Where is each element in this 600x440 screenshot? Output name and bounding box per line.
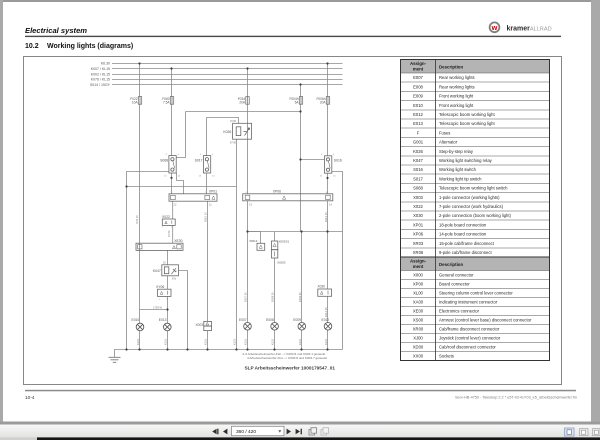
junction XY06 out / link [166, 308, 168, 310]
wire S017 to XP01 [206, 173, 208, 194]
wire S068 aux pin [177, 173, 184, 194]
svg-text:87 85: 87 85 [230, 142, 237, 145]
svg-text:7.5A: 7.5A [163, 101, 170, 105]
svg-text:XP06: XP06 [273, 189, 281, 193]
svg-text:1759 W: 1759 W [153, 305, 162, 309]
svg-text:XJ00: XJ00 [413, 336, 423, 341]
connector X030 [318, 289, 332, 296]
junction distribution / E007 feed [246, 230, 248, 232]
svg-text:E009: E009 [293, 318, 301, 322]
junction fuse F004h / bus5 [299, 83, 301, 85]
svg-text:15 86: 15 86 [230, 120, 237, 123]
svg-text:X000: X000 [413, 273, 423, 278]
svg-text:K6.30: K6.30 [101, 62, 110, 66]
wire bus line 3 K002/KL15 [112, 74, 343, 76]
junction F004h out / loop wire [299, 110, 301, 112]
svg-text:Electronics connector: Electronics connector [439, 309, 480, 314]
svg-text:E012: E012 [413, 112, 423, 117]
lamp E010 [136, 323, 144, 331]
svg-text:KL31: KL31 [244, 338, 248, 345]
junction fuse F022 / bus1 [138, 62, 140, 64]
wire S068 to XP01 [171, 173, 173, 194]
junction dot group [125, 62, 328, 350]
connector X0033/1 upper [272, 241, 278, 258]
svg-text:S016: S016 [413, 167, 423, 172]
toolbar last-page button [296, 429, 300, 435]
wire S016 to XP06 [327, 173, 329, 194]
svg-text:XD00: XD00 [413, 345, 424, 350]
junction ground bus / left return [125, 348, 127, 350]
relay K047 [162, 265, 179, 276]
toolbar snapshot icon [309, 428, 329, 435]
svg-text:Cab/frame disconnect connector: Cab/frame disconnect connector [439, 327, 500, 332]
svg-text:XE00: XE00 [413, 309, 424, 314]
svg-text:20A: 20A [239, 101, 246, 105]
svg-text:XP01: XP01 [209, 190, 217, 194]
svg-text:Working lights (diagrams): Working lights (diagrams) [47, 43, 133, 50]
junction ground bus / E007 [246, 348, 248, 350]
svg-text:15 54: 15 54 [167, 230, 171, 237]
toolbar first-page button [212, 429, 302, 435]
svg-text:S017: S017 [413, 176, 423, 181]
svg-text:G001: G001 [413, 140, 424, 145]
fuse F004h [299, 97, 302, 105]
wire F060 drop to S068 [171, 69, 173, 156]
svg-text:E013: E013 [159, 318, 167, 322]
switch S016 [325, 156, 332, 173]
svg-text:Rear working lights: Rear working lights [439, 85, 475, 90]
svg-text:E012 15: E012 15 [324, 212, 328, 222]
svg-text:Sockets: Sockets [439, 354, 454, 359]
svg-text:S068: S068 [160, 158, 168, 162]
wire bus line 4 K076/KL15 [112, 79, 343, 81]
wire relay loop upper [176, 112, 300, 158]
svg-text:10-4: 10-4 [25, 395, 35, 401]
svg-text:Steering column control lever: Steering column control lever connector [439, 291, 513, 296]
wire label KL31 E010 [135, 203, 332, 346]
svg-text:Description: Description [439, 262, 463, 267]
junction S016 aux feed [299, 158, 301, 160]
svg-text:E010: E010 [132, 318, 140, 322]
svg-text:K026: K026 [223, 130, 231, 134]
svg-text:KL31: KL31 [271, 338, 275, 345]
svg-text:S017: S017 [195, 158, 203, 162]
wire S016 aux feed [301, 159, 325, 161]
wire left return S068 [127, 172, 170, 350]
svg-text:10A: 10A [132, 101, 139, 105]
connector strip XP01 [169, 194, 217, 201]
svg-text:15-pole cab/frame disconnect: 15-pole cab/frame disconnect [439, 241, 495, 246]
footer rule [25, 390, 576, 392]
wire branch to X00SV boxes [274, 232, 276, 350]
svg-text:S014 / 15GY: S014 / 15GY [90, 83, 111, 87]
svg-text:XE30: XE30 [174, 239, 182, 243]
svg-text:K047: K047 [153, 269, 161, 273]
svg-text:KL31: KL31 [136, 338, 140, 345]
toolbar next button [287, 429, 291, 435]
junction distribution / E009 feed [300, 230, 302, 232]
fuse F034 [246, 97, 249, 105]
board XE30 [136, 243, 183, 250]
svg-text:X0013: X0013 [249, 239, 258, 243]
svg-text:K026: K026 [413, 149, 423, 154]
svg-text:20A: 20A [320, 101, 327, 105]
junction below S068 [170, 177, 172, 179]
svg-text:Telescopic boom working light: Telescopic boom working light [439, 121, 495, 126]
svg-text:K76 15: K76 15 [135, 215, 139, 224]
svg-text:Telescopic boom working light: Telescopic boom working light [439, 112, 495, 117]
lamp E013 [164, 323, 172, 331]
junction left return / row 186 [125, 185, 127, 187]
svg-text:Serv-HB-4750 - Teleskop 2.2 *: Serv-HB-4750 - Teleskop 2.2 * e5T-02+EY0… [455, 396, 577, 400]
svg-text:Rear working lights: Rear working lights [439, 75, 475, 80]
svg-text:w: w [491, 23, 498, 32]
bus label K6.30 [90, 62, 111, 87]
svg-text:14-pole board connection: 14-pole board connection [439, 232, 487, 237]
wire F022 drop [139, 64, 141, 324]
viewer bottom chrome [0, 422, 600, 425]
wire branch to X0013 [248, 232, 261, 244]
wire XE30 to K047 [167, 250, 169, 264]
svg-text:K007 / KL15: K007 / KL15 [91, 67, 110, 71]
svg-text:F: F [417, 130, 420, 135]
svg-text:XP00: XP00 [413, 282, 424, 287]
svg-text:Front working light: Front working light [439, 103, 474, 108]
svg-text:XX00: XX00 [413, 354, 424, 359]
svg-text:E007 30: E007 30 [244, 292, 248, 302]
lamp E007 [244, 323, 252, 331]
connector XY06 [158, 289, 172, 296]
svg-text:KL31: KL31 [232, 338, 236, 345]
svg-text:7-pole connector (work hydraul: 7-pole connector (work hydraulics) [439, 204, 504, 209]
svg-text:Alternator: Alternator [439, 140, 458, 145]
svg-text:X030: X030 [413, 213, 423, 218]
lamp E008 [271, 323, 279, 331]
view mode button 2 [580, 429, 589, 436]
junction below S016 [326, 177, 328, 179]
svg-text:E008: E008 [413, 85, 423, 90]
wire bus line 5 S014/15GY [112, 84, 343, 86]
svg-text:XP06: XP06 [413, 232, 424, 237]
lamp E012 [324, 323, 332, 331]
wire lamp E007 feed [247, 201, 249, 350]
svg-text:E010 12: E010 12 [203, 212, 207, 222]
switch S068 [169, 156, 176, 173]
wire lamp E009 feed [301, 232, 303, 350]
wire ground bus [115, 350, 343, 358]
svg-text:Step-by-step relay: Step-by-step relay [439, 149, 474, 154]
wire X022 to XE30 [172, 225, 174, 243]
svg-text:X030: X030 [318, 285, 326, 289]
svg-text:360 / 420: 360 / 420 [236, 429, 256, 435]
svg-text:XY06: XY06 [156, 285, 164, 289]
svg-text:X0033/1: X0033/1 [279, 239, 290, 243]
wire relay coil feed [207, 118, 239, 157]
junction fuse F060 / bus2 [170, 67, 172, 69]
svg-text:ment: ment [413, 66, 424, 71]
toolbar prev button [223, 429, 227, 435]
svg-text:XA00: XA00 [413, 300, 424, 305]
svg-text:Cab/roof disconnect connector: Cab/roof disconnect connector [439, 345, 496, 350]
svg-text:X003: X003 [196, 323, 204, 327]
wire bus line 1 K6.30 [112, 63, 343, 65]
table assignments 1 [401, 60, 550, 258]
svg-text:E009 30: E009 30 [298, 292, 302, 302]
svg-text:Electrical system: Electrical system [25, 26, 87, 35]
wire F006h drop to S016 [327, 64, 329, 156]
connector strip XP06 [243, 194, 333, 201]
svg-text:E007: E007 [239, 318, 247, 322]
fuse F006h [326, 97, 329, 105]
view mode button 3 (cut) [593, 429, 600, 436]
svg-text:General connector: General connector [439, 273, 474, 278]
junction ground bus / E010 [138, 348, 140, 350]
svg-text:K047: K047 [413, 158, 423, 163]
svg-text:Description: Description [439, 64, 463, 69]
svg-text:K002 / KL15: K002 / KL15 [91, 73, 110, 77]
svg-text:XP01: XP01 [413, 222, 424, 227]
svg-text:E012: E012 [322, 318, 330, 322]
svg-text:Working light switching relay: Working light switching relay [439, 158, 493, 163]
svg-text:Working light switch: Working light switch [439, 167, 477, 172]
svg-text:X003: X003 [413, 195, 423, 200]
svg-text:Board connector: Board connector [439, 282, 470, 287]
svg-text:S016: S016 [334, 158, 342, 162]
junction distribution / E012 feed [326, 230, 328, 232]
wire XP01 to X003 chain [207, 201, 209, 349]
svg-text:1-pole connector (working ligh: 1-pole connector (working lights) [439, 195, 500, 200]
wire junction row 186 [127, 186, 237, 188]
svg-text:87a: 87a [172, 278, 177, 281]
svg-text:18-pole board connection: 18-pole board connection [439, 222, 487, 227]
svg-text:Front working light: Front working light [439, 94, 474, 99]
junction ground bus / E009 [300, 348, 302, 350]
toolbar page box [232, 426, 285, 435]
wire distribution row [248, 231, 343, 233]
junction ground bus / X003 [206, 348, 208, 350]
svg-text:ment: ment [413, 264, 424, 269]
svg-text:K076 / KL15: K076 / KL15 [91, 78, 110, 82]
svg-text:XR00: XR00 [413, 327, 424, 332]
svg-text:E009: E009 [413, 94, 423, 99]
junction ground bus / K026 return [235, 348, 237, 350]
junction fuse F034 / bus2 [246, 67, 248, 69]
junction ground bus / E013 [166, 348, 168, 350]
junction fuse F006h / bus1 [326, 62, 328, 64]
svg-text:SLP Arbeitsscheinwerfer 100017: SLP Arbeitsscheinwerfer 1000179547_01 [245, 365, 336, 370]
svg-text:KL31: KL31 [298, 338, 302, 345]
table assignments 2 [401, 257, 550, 361]
svg-text:S068: S068 [413, 186, 423, 191]
svg-text:XR03: XR03 [413, 241, 424, 246]
svg-text:X022: X022 [162, 215, 170, 219]
junction ground bus / E012 [326, 348, 328, 350]
svg-text:E008 30: E008 30 [271, 292, 275, 302]
lamp E009 [298, 323, 306, 331]
ground symbol [109, 357, 121, 362]
svg-text:E013: E013 [413, 121, 423, 126]
fuse F022 [138, 97, 329, 105]
svg-text:Indicating instrument connecto: Indicating instrument connector [439, 300, 498, 305]
wire F034 drop to XP06 [247, 69, 249, 194]
svg-text:Telescopic boom working light: Telescopic boom working light switch [439, 186, 508, 191]
wire lamp E012 feed through X030 [327, 201, 329, 350]
view mode button 1 [565, 428, 575, 436]
lamp E010 drop [139, 331, 141, 350]
svg-text:E008: E008 [266, 318, 274, 322]
relay K026 [233, 123, 252, 139]
junction ground bus / K047 return [186, 348, 188, 350]
svg-text:KL31: KL31 [163, 338, 167, 345]
wire F004h drop [300, 85, 302, 232]
toolbar snapshot icon 2 disabled [321, 428, 329, 435]
svg-text:Fuses: Fuses [439, 130, 450, 135]
wire K047 to XY06 [167, 276, 169, 289]
wire K047 return [179, 271, 188, 350]
wire bus line 2 K007/KL15 [112, 68, 343, 70]
svg-text:4 Arbeitsscheinwerfer-Ftsl --: 4 Arbeitsscheinwerfer-Ftsl --> K003.8 un… [247, 356, 327, 360]
svg-text:E007: E007 [413, 75, 423, 80]
svg-text:X022: X022 [413, 204, 423, 209]
wire S016 return right [332, 172, 343, 350]
svg-text:2-pole connection (boom workin: 2-pole connection (boom working light) [439, 213, 512, 218]
svg-text:Working light tip switch: Working light tip switch [439, 176, 482, 181]
svg-text:10.2: 10.2 [25, 43, 39, 50]
svg-text:E010: E010 [413, 103, 423, 108]
svg-text:kramerALLRAD: kramerALLRAD [507, 25, 552, 32]
kramer allrad logo [490, 22, 500, 32]
connector X0033 lower [272, 250, 278, 258]
svg-text:9-pole cab/frame disconnect: 9-pole cab/frame disconnect [439, 250, 492, 255]
wire XY06 to lamp E013 [167, 296, 169, 349]
svg-text:XL00: XL00 [413, 291, 423, 296]
fuse F060 [170, 97, 173, 105]
svg-text:XR06: XR06 [413, 250, 424, 255]
connector X022 [162, 219, 175, 225]
svg-text:E012 30: E012 30 [324, 307, 328, 317]
svg-text:Armrest (control lever base) d: Armrest (control lever base) disconnect … [439, 318, 532, 323]
wire XP01 to X022 [172, 201, 174, 219]
wire relay return [236, 139, 238, 349]
svg-text:XS00: XS00 [413, 318, 424, 323]
connector X003 [204, 321, 212, 330]
svg-text:X0033: X0033 [277, 260, 286, 264]
svg-text:Joystick (control lever) conne: Joystick (control lever) connector [439, 336, 501, 341]
svg-text:KL31: KL31 [324, 338, 328, 345]
junction ground bus / E008 [273, 348, 275, 350]
connector X0013 [257, 243, 265, 250]
figure frame [24, 57, 562, 385]
svg-text:KL31: KL31 [203, 338, 207, 345]
switch S017 [203, 156, 210, 173]
wire link E010-E013 [140, 309, 168, 311]
